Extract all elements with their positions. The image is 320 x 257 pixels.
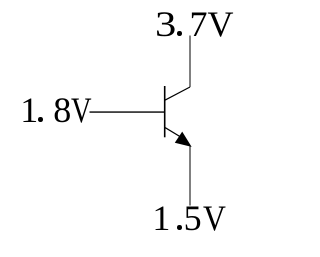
collector lead — [165, 87, 190, 100]
wire base horizontal — [90, 111, 165, 113]
node emitter voltage label 1.5V — [152, 200, 228, 236]
transistor Q1 — [165, 86, 191, 146]
node collector voltage label 3.7V — [155, 6, 234, 42]
wire emitter vertical — [189, 146, 191, 206]
emitter arrowhead — [176, 133, 191, 147]
wire collector vertical — [189, 36, 191, 88]
emitter lead — [165, 127, 184, 139]
node base voltage label 1.8V — [20, 92, 97, 128]
base bar — [164, 86, 166, 137]
